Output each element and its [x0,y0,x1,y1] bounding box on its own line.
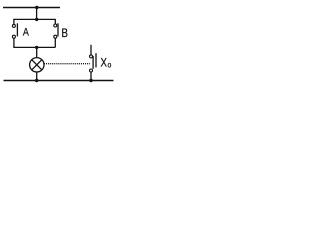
svg-text:A: A [23,27,29,39]
switch B top terminal circle [54,24,57,27]
dotted mechanical link lamp to contact X0 [44,63,90,65]
switch A bottom terminal circle [12,35,15,38]
switch B contact bar [57,23,59,36]
wire stub above contact X0 [90,45,92,55]
lamp X0 cross stroke 2 [32,60,42,70]
switch B bottom terminal circle [54,35,57,38]
wire from switch A down to lower rail [13,38,15,47]
wire from lower rail to lamp [36,47,38,58]
junction dot on lower rail [35,46,38,49]
wire down to switch B [54,19,56,24]
junction dot lamp to bottom rail [35,79,38,82]
wire from switch B down to lower rail [54,38,56,47]
junction dot on top rail [35,6,38,9]
junction dot contact X0 to bottom rail [89,79,92,82]
junction dot on branch rail [35,18,38,21]
svg-text:B: B [61,27,68,40]
switch A contact bar [16,23,18,36]
lamp X0 circle [30,58,44,72]
svg-text:X: X [101,56,108,69]
wire down to switch A [13,19,15,25]
wire from contact X0 to bottom rail [90,72,92,81]
switch A top terminal circle [12,24,15,27]
lower rail wire joining switch branches [13,46,55,48]
svg-text:o: o [108,60,112,70]
contact X0 bottom terminal circle [90,69,93,72]
contact X0 outer bar [95,53,97,67]
contact X0 inner bar [92,56,94,69]
wire from lamp to bottom rail [36,72,38,81]
contact X0 top terminal circle [90,55,93,58]
branch rail wire between switch A and switch B [13,18,55,20]
bottom supply rail wire [4,80,114,82]
top supply rail wire [3,7,60,9]
wire from top rail down to branch rail [36,8,38,20]
lamp X0 cross stroke 1 [32,60,42,70]
